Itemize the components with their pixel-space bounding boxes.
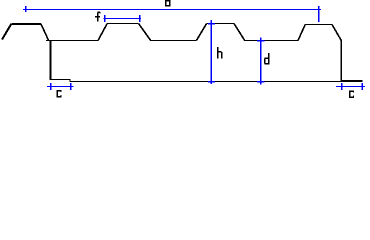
dimension d top tick	[257, 40, 265, 42]
dimension c right tick 1	[341, 83, 343, 90]
label f	[95, 12, 100, 22]
wire right bottom edge tab	[340, 80, 362, 82]
dimension b line	[23, 9, 321, 11]
dimension c right tick 2	[361, 83, 363, 90]
dimension c left tick 2	[70, 83, 72, 90]
dimension h top tick	[208, 23, 215, 25]
label c left	[57, 90, 62, 98]
wire crest 3 top flange	[206, 23, 234, 25]
wire crest 2 left slope	[98, 24, 107, 41]
dimension b left tick	[25, 6, 27, 12]
label d	[264, 53, 270, 64]
wire trough 1	[46, 40, 98, 42]
label h	[217, 47, 223, 58]
wire crest 1 right slope	[41, 24, 49, 41]
dimension f right tick	[139, 15, 141, 22]
dimension d line	[260, 38, 262, 85]
label b (ascender clipped by top edge)	[165, 0, 171, 7]
dimension b right tick and extension	[318, 6, 320, 22]
wire crest 3 right slope	[234, 24, 245, 41]
wire crest 4 left slope	[298, 25, 305, 41]
wire crest 4 top flange	[305, 24, 332, 26]
wire step between tab and bottom flange	[69, 80, 71, 82]
wire trough 3	[244, 40, 298, 42]
label c right	[349, 90, 354, 98]
wire left bottom edge tab	[50, 79, 70, 81]
dimension h bottom tick	[208, 81, 215, 83]
wire crest 3 left slope	[196, 24, 206, 41]
wire left cut edge diagonal	[2, 24, 11, 40]
dimension h line	[210, 20, 212, 84]
wire bottom flange	[70, 81, 342, 83]
wire crest 2 right slope	[139, 24, 151, 41]
dimension d bottom tick	[257, 81, 265, 83]
dimension c right line	[336, 86, 365, 88]
wire left web vertical	[49, 40, 51, 80]
wire right web vertical	[340, 40, 342, 81]
wire crest 4 right slope	[332, 25, 341, 41]
wire crest 2 top flange	[107, 23, 139, 25]
dimension f left tick	[104, 15, 106, 22]
wire crest 1 top flange	[11, 23, 41, 25]
dimension f line	[104, 18, 142, 20]
dimension c left tick 1	[50, 83, 52, 90]
dimension c left line	[47, 86, 74, 88]
wire trough 2	[150, 40, 196, 42]
